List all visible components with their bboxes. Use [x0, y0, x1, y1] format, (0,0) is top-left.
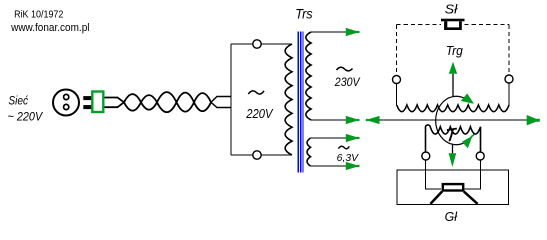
speaker enclosure box [397, 170, 508, 205]
wire 230V bottom [311, 119, 346, 121]
svg-text:Trg: Trg [446, 44, 463, 58]
dashed top wire left segment [397, 24, 442, 26]
~ sign primary [248, 91, 264, 94]
arrow right end of wiper wire [527, 115, 540, 125]
arrowhead top of rotation arc [461, 94, 474, 104]
autotransformer Trg winding [397, 105, 509, 112]
svg-text:Sł: Sł [445, 1, 459, 16]
speaker cone left side [430, 191, 442, 204]
mains socket outline [53, 90, 79, 116]
plug body (green) [92, 92, 103, 113]
wire 230V top [311, 31, 346, 33]
dashed top wire right segment [465, 24, 510, 26]
~ sign 230V [337, 67, 353, 71]
down arrow below pickup coil [449, 153, 457, 167]
plug pin bottom [83, 105, 91, 109]
secondary winding 230V [306, 32, 311, 120]
terminal right of Trg [505, 75, 513, 83]
arrow 230V top [346, 28, 360, 36]
primary loop top wire [231, 43, 292, 45]
transformer core (3 blue lamination lines) [298, 31, 303, 172]
svg-text:Sieć: Sieć [8, 94, 28, 108]
wire left terminal to winding [396, 84, 398, 106]
speaker wire left [426, 155, 442, 189]
primary loop bottom wire [231, 154, 292, 156]
~ sign 6,3V [338, 146, 349, 149]
arrow 230V bottom [346, 116, 360, 124]
svg-text:230V: 230V [334, 75, 361, 89]
svg-text:220V: 220V [245, 106, 273, 121]
svg-text:www.fonar.com.pl: www.fonar.com.pl [10, 22, 89, 34]
wire 6,3V bottom [311, 165, 347, 167]
stem of down arrow [452, 145, 454, 155]
wiper wire horizontal [379, 119, 527, 121]
svg-text:Gł: Gł [445, 209, 458, 224]
mains cord wire bottom lead [105, 102, 125, 107]
socket hole bottom [64, 104, 69, 109]
up arrow above circle [449, 62, 457, 74]
mains cord wire top lead [105, 98, 125, 103]
nub of bottom arrowhead [471, 134, 475, 137]
dashed right vertical wire [508, 25, 510, 75]
rotation arc (adjustment) [436, 96, 467, 144]
arrow 6,3V top [346, 134, 360, 142]
terminal top of primary [253, 40, 261, 48]
speaker wire right [465, 155, 481, 189]
terminal left of Trg [393, 76, 401, 84]
arrowhead bottom of rotation arc [462, 136, 473, 149]
wire right terminal to winding [508, 83, 510, 105]
arrow left (wiper feed) [366, 116, 380, 124]
wire 6,3V top [311, 137, 347, 139]
speaker cone right side [464, 191, 478, 204]
dashed left vertical wire [396, 25, 398, 76]
pickup coil winding [425, 125, 480, 155]
T mark on pickup coil [447, 129, 457, 142]
cord exit wire top [211, 97, 232, 103]
connector Sl top bar [441, 19, 465, 22]
twisted cord upper strand [124, 92, 211, 102]
svg-text:~ 220V: ~ 220V [8, 109, 44, 123]
plug pin top [83, 96, 91, 100]
primary winding [285, 44, 292, 155]
terminal right above speaker [476, 152, 484, 160]
terminal bottom of primary [253, 151, 261, 159]
speaker driver [443, 184, 463, 190]
twisted cord lower strand [124, 102, 211, 112]
stem of up arrow [452, 74, 454, 96]
secondary winding 6,3V [307, 138, 310, 166]
svg-text:Trs: Trs [295, 7, 312, 23]
arrow 6,3V bottom [346, 162, 360, 170]
socket hole top [64, 94, 69, 99]
svg-text:RiK 10/1972: RiK 10/1972 [14, 9, 63, 20]
svg-text:6,3V: 6,3V [337, 153, 360, 164]
primary loop left wire [230, 44, 232, 155]
terminal left above speaker [422, 152, 430, 160]
connector Sl body [444, 21, 462, 30]
cord exit wire bottom [211, 102, 232, 107]
